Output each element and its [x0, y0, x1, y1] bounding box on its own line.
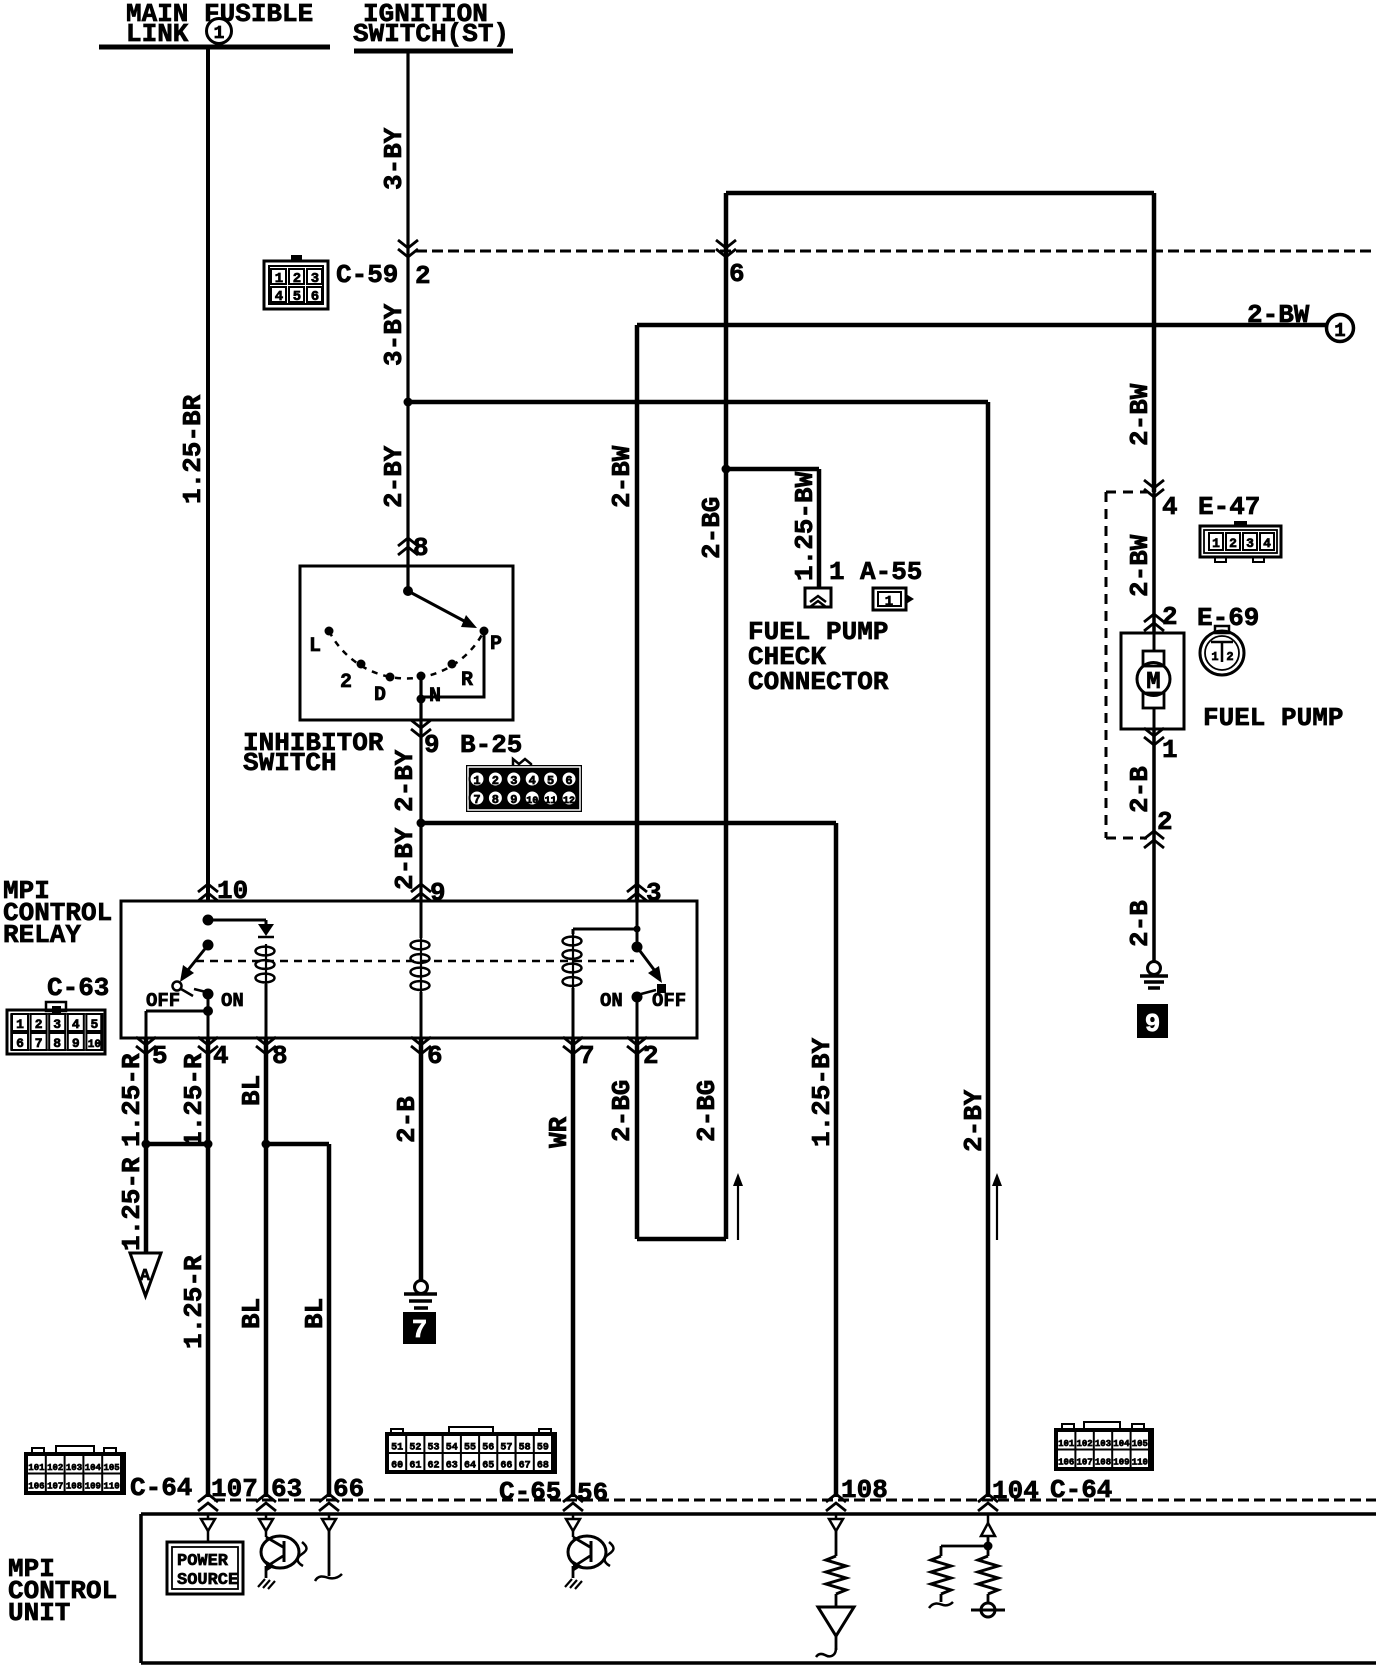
junction pin5/pin4 tie [142, 1140, 151, 1149]
MPI connector dashed boundary [214, 1499, 1376, 1502]
connector icon B-25 [513, 759, 531, 765]
pin 104 terminal circle [981, 1603, 995, 1617]
svg-text:6: 6 [565, 774, 572, 788]
wire BL branch to MPI 66 [327, 1144, 332, 1497]
relay coil L3 [572, 929, 575, 934]
relay coil L2 [420, 901, 423, 938]
svg-text:51: 51 [391, 1443, 403, 1454]
contact dot N [417, 672, 426, 681]
svg-text:12: 12 [563, 796, 575, 807]
wire 1.25-BY vertical to MPI pin 108 [834, 823, 839, 1497]
connector icon E-69 [1215, 626, 1229, 633]
svg-text:56: 56 [482, 1443, 494, 1454]
relay pin 6 chevrons [411, 1037, 431, 1054]
svg-text:E-47: E-47 [1198, 492, 1260, 522]
junction fuel pump check branch [722, 465, 731, 474]
MPI pin 66 head triangle [322, 1519, 336, 1531]
svg-text:1.25-R: 1.25-R [117, 1157, 147, 1251]
svg-text:4: 4 [1162, 492, 1178, 522]
svg-text:109: 109 [85, 1482, 101, 1492]
svg-text:5: 5 [547, 774, 554, 788]
wire vertical x726 (2-BG feed) [724, 193, 729, 1239]
circled 1 symbol (2-BW off-page) [1327, 315, 1354, 342]
svg-text:C-63: C-63 [47, 973, 109, 1003]
svg-text:2: 2 [415, 261, 431, 291]
svg-text:FUEL PUMP: FUEL PUMP [1203, 703, 1343, 733]
svg-text:C-64: C-64 [1050, 1475, 1112, 1505]
wire 2-BW inside dashed box [1152, 492, 1156, 633]
pin 108 tail hook [835, 1636, 838, 1650]
svg-text:UNIT: UNIT [8, 1598, 70, 1628]
svg-text:55: 55 [464, 1443, 476, 1454]
wire 2-BY vertical to MPI pin 104 [986, 402, 991, 1497]
svg-text:106: 106 [28, 1482, 44, 1492]
inhibitor selector arm to P [408, 591, 466, 622]
contact dot L [325, 627, 334, 636]
svg-text:110: 110 [103, 1482, 119, 1492]
junction BL branch [262, 1140, 271, 1149]
svg-text:3: 3 [510, 774, 517, 788]
svg-text:10: 10 [88, 1039, 101, 1051]
svg-text:L: L [309, 635, 321, 658]
relay switch S1 pivot [203, 940, 214, 951]
svg-text:59: 59 [537, 1443, 549, 1454]
ground symbol 9 [1148, 962, 1161, 975]
svg-text:2-B: 2-B [392, 1096, 422, 1143]
wire 2-BW horizontal to circled 1 [637, 323, 1326, 328]
svg-text:OFF: OFF [146, 990, 180, 1012]
svg-text:A: A [140, 1267, 151, 1286]
svg-text:10: 10 [526, 796, 538, 807]
svg-text:BL: BL [237, 1075, 267, 1106]
svg-text:61: 61 [409, 1461, 421, 1472]
connector icon C-65 [391, 1429, 403, 1436]
svg-text:63: 63 [446, 1461, 458, 1472]
wire 1.25-BR from main fusible link to relay pin 10 [206, 47, 210, 901]
svg-text:A-55: A-55 [860, 557, 922, 587]
svg-text:2: 2 [35, 1017, 43, 1032]
wire 2-B pin6 to ground [419, 1038, 424, 1281]
junction 2-BY / 1.25-BY [417, 819, 426, 828]
svg-text:106: 106 [1058, 1458, 1074, 1468]
svg-text:2-B: 2-B [1125, 900, 1155, 947]
fuel pump pin 4 chevrons [1144, 480, 1164, 497]
svg-text:105: 105 [103, 1463, 119, 1473]
ground symbol 7 [415, 1281, 428, 1294]
svg-text:104: 104 [992, 1476, 1039, 1506]
relay pin 3 chevrons [627, 884, 647, 901]
relay wire pin3 into switch [636, 901, 639, 947]
resistor R1 (pin 108) [835, 1531, 838, 1556]
resistor R2 (pin 104 left) [941, 1546, 988, 1556]
svg-text:2-BW: 2-BW [1125, 534, 1155, 597]
inhibitor pin 8 chevrons [398, 538, 418, 555]
fuel pump pin 2 lower chevrons [1144, 831, 1164, 848]
svg-text:66: 66 [500, 1461, 512, 1472]
MPI control unit box [141, 1514, 1376, 1663]
contact dot D [386, 673, 395, 682]
MPI pin 108 chevrons [826, 1494, 846, 1511]
svg-text:ON: ON [221, 990, 244, 1012]
svg-text:6: 6 [311, 289, 319, 305]
svg-text:1: 1 [1162, 735, 1178, 765]
flow arrow (2-BY) [996, 1183, 998, 1240]
svg-text:9: 9 [510, 793, 517, 807]
svg-text:107: 107 [1076, 1458, 1092, 1468]
svg-text:2-BW: 2-BW [607, 445, 637, 508]
relay pin 4 chevrons [198, 1037, 218, 1054]
relay wire ON to pin 2 [636, 997, 639, 1038]
svg-text:SWITCH(ST): SWITCH(ST) [353, 19, 509, 49]
wire 2-BW vertical to relay pin 3 [635, 325, 640, 901]
fuel pump pin 2 chevrons [1144, 614, 1164, 631]
relay pin 10 chevrons [198, 884, 218, 901]
diode symbol (pin 108 triangle) [818, 1607, 854, 1636]
svg-text:2-BY: 2-BY [959, 1089, 989, 1152]
svg-text:SOURCE: SOURCE [177, 1571, 238, 1590]
relay S2 OFF contact [657, 984, 666, 993]
svg-text:4: 4 [72, 1017, 80, 1032]
A-55 terminal box with chevrons [805, 588, 831, 607]
svg-text:5: 5 [90, 1017, 98, 1032]
wire 2-B to ground [1152, 838, 1156, 962]
output junction below N [417, 695, 426, 704]
svg-text:BL: BL [237, 1298, 267, 1329]
svg-text:105: 105 [1132, 1439, 1148, 1449]
svg-text:63: 63 [271, 1474, 302, 1504]
relay box [121, 901, 697, 1038]
MPI pin 66 chevrons [319, 1494, 339, 1511]
contact dot P [480, 627, 489, 636]
contact dot R [448, 660, 457, 669]
MPI pin 108 head triangle [829, 1519, 843, 1531]
relay pin10 node [203, 915, 214, 926]
svg-text:65: 65 [482, 1461, 494, 1472]
svg-text:2-BY: 2-BY [390, 749, 420, 812]
relay pin 8 chevrons [256, 1037, 276, 1054]
svg-text:9: 9 [424, 730, 440, 760]
relay switch S2 pivot [632, 942, 643, 953]
relay S1 ON contact [203, 989, 214, 1000]
inhibitor wire into pivot [406, 566, 409, 591]
svg-text:7: 7 [412, 1315, 428, 1345]
svg-text:2: 2 [1226, 650, 1233, 664]
svg-text:9: 9 [1145, 1009, 1161, 1039]
MPI pin 104 head triangle [981, 1523, 995, 1536]
relay wire pin10 to diode [208, 920, 266, 924]
svg-text:1: 1 [829, 557, 845, 587]
svg-text:WR: WR [544, 1116, 574, 1148]
relay switch S2 arm [637, 947, 658, 975]
svg-text:2: 2 [643, 1041, 659, 1071]
svg-text:D: D [374, 684, 386, 707]
svg-text:2: 2 [1229, 536, 1237, 551]
connector icon A-55 [873, 588, 906, 610]
C-59 pin 2 terminal chevrons [398, 240, 418, 257]
svg-text:SWITCH: SWITCH [243, 748, 337, 778]
ignition switch bus bar [354, 49, 513, 54]
fuel pump pin 1 chevrons [1144, 728, 1164, 745]
connector icon C-64 (right) [1062, 1424, 1074, 1431]
svg-text:4: 4 [1263, 536, 1271, 551]
svg-text:6: 6 [16, 1036, 24, 1051]
fuel pump box [1121, 633, 1184, 729]
svg-text:54: 54 [446, 1443, 458, 1454]
relay coil L3 top link [573, 928, 637, 931]
inhibitor arm arrowhead [461, 615, 477, 628]
svg-text:6: 6 [729, 259, 745, 289]
svg-text:4: 4 [275, 289, 283, 305]
svg-text:101: 101 [1058, 1439, 1075, 1449]
pin 104 junction [987, 1536, 990, 1556]
svg-text:2: 2 [1162, 602, 1178, 632]
connector icon C-63 [46, 1002, 66, 1011]
wire 1.25-R pin4 to MPI 107 [206, 1038, 211, 1497]
svg-text:OFF: OFF [652, 990, 686, 1012]
fuel pump motor M [1153, 633, 1156, 651]
wire from P contact to output [421, 631, 484, 697]
relay diode D1 [258, 924, 274, 936]
svg-text:8: 8 [53, 1036, 61, 1051]
main fusible link bus bar [99, 45, 330, 50]
svg-text:1: 1 [214, 24, 225, 44]
svg-text:7: 7 [579, 1041, 595, 1071]
svg-text:62: 62 [428, 1461, 440, 1472]
svg-text:64: 64 [464, 1461, 476, 1472]
svg-text:R: R [461, 669, 473, 692]
inhibitor switch box [300, 566, 513, 720]
relay switch S2 arm arrowhead [648, 966, 662, 983]
svg-text:2: 2 [1157, 807, 1173, 837]
svg-text:1.25-R: 1.25-R [117, 1053, 147, 1147]
svg-text:C-59: C-59 [336, 260, 398, 290]
svg-text:103: 103 [66, 1463, 82, 1473]
svg-text:2: 2 [492, 774, 499, 788]
svg-text:2-BY: 2-BY [379, 445, 409, 508]
svg-text:3-BY: 3-BY [379, 303, 409, 366]
svg-text:11: 11 [545, 796, 557, 807]
connector icon C-59 [264, 261, 328, 309]
junction ignition/2-BY split [404, 398, 413, 407]
svg-text:6: 6 [427, 1041, 443, 1071]
relay pin 7 chevrons [563, 1037, 583, 1054]
svg-text:67: 67 [519, 1461, 531, 1472]
relay pin 5 chevrons [136, 1037, 156, 1054]
svg-text:1: 1 [885, 594, 893, 610]
svg-text:107: 107 [47, 1482, 63, 1492]
svg-text:1: 1 [1334, 320, 1345, 342]
resistor R3 (pin 104 right) [978, 1556, 998, 1594]
relay junction above pin4 [203, 1006, 213, 1016]
svg-text:102: 102 [1076, 1439, 1092, 1449]
MPI pin 107 head triangle [201, 1519, 215, 1531]
relay wire ON to pins 4 and 5 [146, 994, 208, 1038]
wire top horizontal to fuel pump branch [726, 191, 1154, 196]
svg-text:8: 8 [413, 533, 429, 563]
relay S1 OFF contact [173, 982, 182, 991]
ground box 9 [1137, 1004, 1168, 1038]
connector icon E-47 [1234, 521, 1247, 527]
svg-text:2-BY: 2-BY [390, 827, 420, 890]
svg-text:1.25-BR: 1.25-BR [178, 394, 208, 504]
MPI pin 104 chevrons [978, 1494, 998, 1511]
inhibitor pivot [403, 586, 413, 596]
transistor Q2 (pin 56) [572, 1531, 575, 1537]
relay coil L1 [265, 944, 267, 985]
svg-text:56: 56 [577, 1478, 608, 1508]
svg-text:68: 68 [537, 1461, 549, 1472]
wire 2-BW down to fuel pump [1152, 193, 1157, 492]
ground box 7 [403, 1312, 436, 1344]
connector icon C-64 (left) [32, 1448, 44, 1455]
svg-text:3: 3 [53, 1017, 61, 1032]
svg-text:1: 1 [1211, 650, 1218, 664]
svg-text:2-BW: 2-BW [1125, 383, 1155, 446]
connector C-59 dashed boundary [416, 250, 1376, 253]
svg-text:C-64: C-64 [130, 1473, 192, 1503]
svg-text:1.25-R: 1.25-R [179, 1053, 209, 1147]
svg-text:110: 110 [1132, 1458, 1148, 1468]
MPI pin 107 chevrons [198, 1494, 218, 1511]
svg-text:5: 5 [293, 289, 301, 305]
svg-text:108: 108 [1095, 1458, 1111, 1468]
svg-text:4: 4 [213, 1041, 229, 1071]
svg-text:B-25: B-25 [460, 730, 522, 760]
svg-text:1: 1 [1212, 536, 1220, 551]
svg-text:109: 109 [1113, 1458, 1129, 1468]
svg-text:101: 101 [28, 1463, 45, 1473]
svg-text:103: 103 [1095, 1439, 1111, 1449]
svg-text:1: 1 [16, 1017, 24, 1032]
svg-text:57: 57 [500, 1443, 512, 1454]
svg-text:ON: ON [600, 990, 623, 1012]
circled 1 symbol (main fusible link) [207, 19, 232, 44]
svg-text:102: 102 [47, 1463, 63, 1473]
C-59 pin 6 terminal chevrons [716, 240, 736, 257]
fuel pump dashed enclosure [1105, 492, 1108, 838]
svg-text:104: 104 [1113, 1439, 1130, 1449]
svg-text:60: 60 [391, 1461, 403, 1472]
relay switch S1 arm [184, 945, 208, 975]
wire WR pin7 to MPI 56 [571, 1038, 576, 1497]
svg-text:1: 1 [275, 271, 283, 287]
svg-text:7: 7 [35, 1036, 43, 1051]
MPI pin 63 chevrons [256, 1494, 276, 1511]
svg-text:7: 7 [473, 793, 480, 807]
svg-text:CONNECTOR: CONNECTOR [748, 667, 889, 697]
wire 2-BG pin2 loop [637, 1038, 726, 1239]
POWER SOURCE box [207, 1531, 210, 1542]
svg-text:2: 2 [340, 671, 352, 694]
svg-text:5: 5 [152, 1041, 168, 1071]
svg-text:1: 1 [473, 774, 480, 788]
relay internal dashed link [196, 960, 634, 963]
svg-text:3: 3 [311, 271, 319, 287]
svg-text:104: 104 [85, 1463, 102, 1473]
relay S2 ON contact [632, 992, 643, 1003]
wire BL pin8 down [264, 1038, 269, 1497]
wire branch to fuel pump check connector [726, 469, 819, 588]
svg-text:BL: BL [300, 1298, 330, 1329]
svg-text:1.25-BY: 1.25-BY [807, 1037, 837, 1147]
svg-text:108: 108 [841, 1475, 888, 1505]
MPI pin 56 chevrons [563, 1494, 583, 1511]
svg-text:8: 8 [492, 793, 499, 807]
svg-text:1.25-R: 1.25-R [179, 1255, 209, 1349]
transistor Q1 (pin 63) [265, 1531, 268, 1537]
svg-text:107: 107 [211, 1474, 258, 1504]
svg-text:9: 9 [430, 878, 446, 908]
junction pin4 tie [204, 1140, 213, 1149]
inhibitor pin 9 chevrons [411, 720, 431, 737]
svg-text:P: P [490, 633, 502, 656]
inhibitor output wire [419, 676, 422, 823]
svg-text:8: 8 [272, 1041, 288, 1071]
MPI pin 63 head triangle [259, 1519, 273, 1531]
svg-text:C-65: C-65 [499, 1477, 561, 1507]
svg-text:2-BG: 2-BG [697, 497, 727, 559]
svg-text:58: 58 [519, 1443, 531, 1454]
relay pin 9 chevrons [411, 884, 431, 901]
tie wire pin5-pin4 [146, 1142, 208, 1147]
wire 3-BY ignition to inhibitor switch [406, 51, 409, 566]
ground reference A triangle [130, 1253, 161, 1296]
svg-text:2-BW: 2-BW [1247, 300, 1310, 330]
pin 66 stub with hook [328, 1531, 331, 1576]
svg-text:2-BG: 2-BG [692, 1080, 722, 1142]
relay wire coil to pin 8 [265, 984, 268, 1038]
wire 2-BY horizontal to pin 104 drop [408, 400, 988, 405]
wire 1.25-R pin5 down [144, 1038, 149, 1253]
svg-text:RELAY: RELAY [3, 920, 81, 950]
svg-text:3-BY: 3-BY [379, 127, 409, 190]
tie wire BL branch [266, 1142, 329, 1147]
svg-text:1.25-BW: 1.25-BW [790, 471, 820, 581]
svg-text:53: 53 [428, 1443, 440, 1454]
inhibitor selector dashed arc [329, 631, 484, 678]
wire 2-BY into relay pin 9 [419, 823, 422, 901]
svg-text:52: 52 [409, 1443, 421, 1454]
svg-text:4: 4 [529, 774, 536, 788]
relay pin 2 chevrons [627, 1037, 647, 1054]
flow arrow (2-BG) [737, 1183, 739, 1240]
svg-text:108: 108 [66, 1482, 82, 1492]
wire 2-BY horizontal to 1.25-BY drop [421, 821, 836, 826]
svg-text:3: 3 [1246, 536, 1254, 551]
svg-text:2: 2 [293, 271, 301, 287]
relay switch S1 arm arrowhead [180, 965, 194, 982]
svg-text:2-B: 2-B [1125, 766, 1155, 813]
svg-text:3: 3 [646, 878, 662, 908]
svg-text:9: 9 [72, 1036, 80, 1051]
svg-text:2-BG: 2-BG [607, 1080, 637, 1142]
svg-text:POWER: POWER [177, 1552, 229, 1571]
contact dot 2 [357, 660, 366, 669]
svg-text:10: 10 [217, 876, 248, 906]
MPI pin 56 head triangle [566, 1519, 580, 1531]
